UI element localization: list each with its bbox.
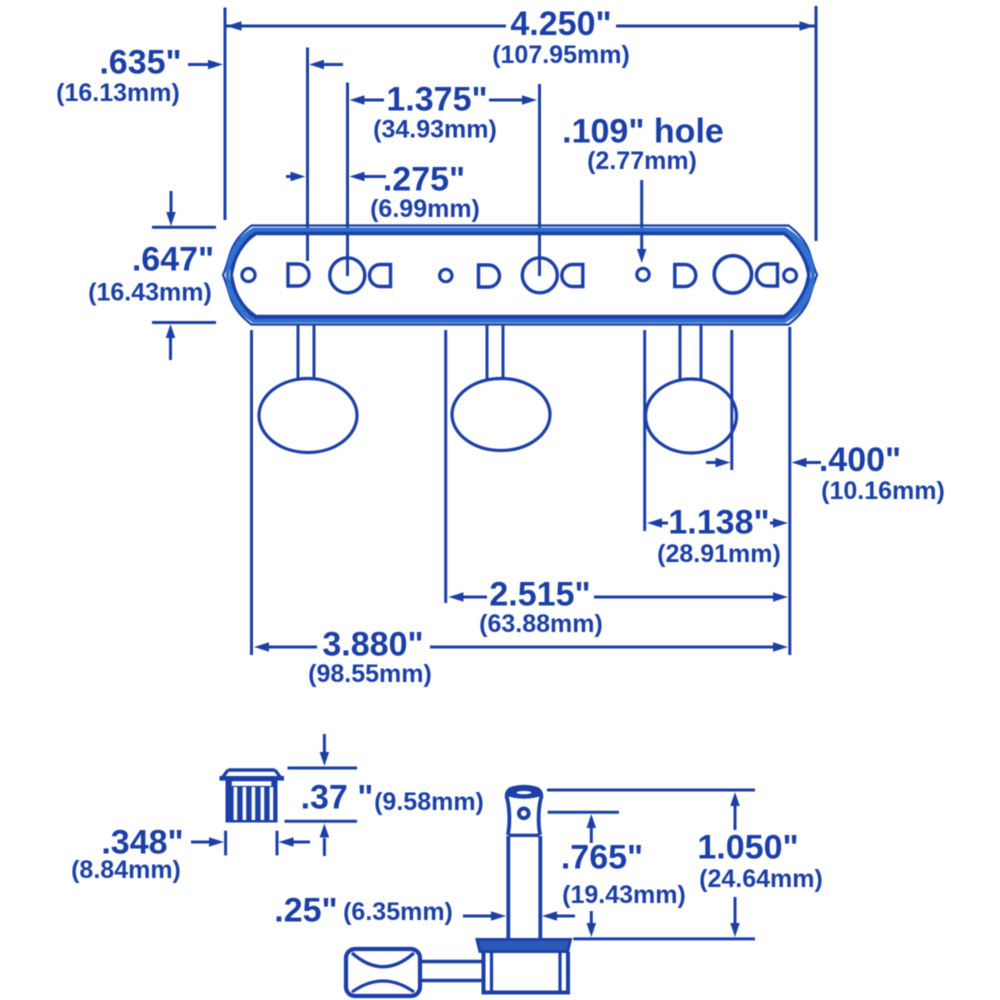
svg-text:(98.55mm): (98.55mm) <box>308 660 432 688</box>
svg-text:(28.91mm): (28.91mm) <box>657 540 781 568</box>
svg-text:(2.77mm): (2.77mm) <box>587 147 697 175</box>
svg-text:(107.95mm): (107.95mm) <box>492 41 630 69</box>
svg-text:(10.16mm): (10.16mm) <box>821 477 945 505</box>
svg-text:.275": .275" <box>383 160 465 198</box>
svg-text:(8.84mm): (8.84mm) <box>71 856 181 884</box>
svg-text:4.250": 4.250" <box>510 5 611 43</box>
svg-text:.635": .635" <box>99 43 181 81</box>
svg-text:(16.13mm): (16.13mm) <box>56 79 180 107</box>
svg-text:1.050": 1.050" <box>697 828 798 866</box>
svg-text:(34.93mm): (34.93mm) <box>373 116 497 144</box>
svg-text:.37 ": .37 " <box>301 778 374 816</box>
svg-text:(63.88mm): (63.88mm) <box>479 610 603 638</box>
svg-text:(19.43mm): (19.43mm) <box>562 881 686 909</box>
svg-text:3.880": 3.880" <box>322 625 423 663</box>
svg-text:(6.35mm): (6.35mm) <box>343 898 453 926</box>
svg-text:1.138": 1.138" <box>668 503 769 541</box>
svg-text:(16.43mm): (16.43mm) <box>88 279 212 307</box>
svg-text:(6.99mm): (6.99mm) <box>370 195 480 223</box>
svg-text:.25": .25" <box>274 891 337 929</box>
svg-text:.765": .765" <box>561 838 643 876</box>
svg-text:(9.58mm): (9.58mm) <box>374 788 484 816</box>
svg-text:.647": .647" <box>132 240 214 278</box>
svg-text:(24.64mm): (24.64mm) <box>699 865 823 893</box>
svg-text:.400": .400" <box>819 441 901 479</box>
svg-text:2.515": 2.515" <box>489 575 590 613</box>
svg-text:1.375": 1.375" <box>386 80 487 118</box>
svg-text:.109" hole: .109" hole <box>562 112 724 150</box>
